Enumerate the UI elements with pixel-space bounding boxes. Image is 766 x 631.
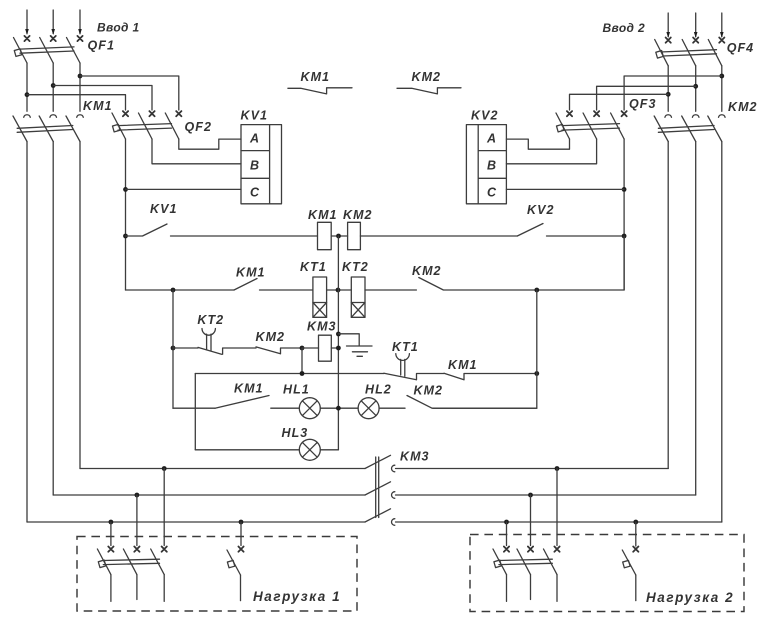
svg-text:QF1: QF1: [88, 38, 115, 52]
contact KM1 NO row5: [215, 396, 299, 409]
wire right rail corner into row 2: [537, 236, 624, 290]
circuit breaker QF4 (3-pole): [655, 40, 722, 66]
node row3 drop junction: [300, 346, 305, 351]
node trunk row3: [336, 346, 341, 351]
wire QF2 pole C rail down: [125, 139, 127, 290]
lamp HL3: [299, 439, 320, 460]
svg-text:Ввод 2: Ввод 2: [603, 21, 645, 35]
svg-text:Нагрузка 2: Нагрузка 2: [646, 590, 734, 605]
svg-text:KT1: KT1: [300, 260, 327, 274]
svg-text:C: C: [487, 185, 497, 199]
svg-text:A: A: [486, 132, 497, 146]
node row4 right junction: [534, 371, 539, 376]
wire HL3 row right: [320, 449, 338, 451]
contactor KM1 main contacts (3-pole): [13, 115, 83, 142]
contactor KM3 changeover (3-pole): [365, 455, 395, 525]
wire HL3 row left: [195, 449, 299, 451]
svg-text:QF2: QF2: [185, 120, 212, 134]
svg-text:KM3: KM3: [400, 449, 430, 463]
svg-text:QF3: QF3: [629, 97, 656, 111]
wire right mid vertical: [433, 290, 537, 408]
wire row2 left from rail: [126, 289, 235, 291]
contact KM1 NC aux (top middle): [288, 88, 352, 94]
input feeder lines Ввод 1 (3 phases with arrows): [25, 10, 82, 35]
contact KM2 NO row2 mirrored: [419, 278, 537, 291]
relay KT1 time relay coil: [313, 277, 327, 317]
wire QF3 pole A step to KV2: [506, 139, 569, 149]
wire QF2 pole A step to KV1: [179, 139, 241, 149]
relay KV2 voltage monitor box: [466, 125, 506, 204]
contact KT2 timed with parachute: [173, 329, 256, 355]
coil KM3 contactor coil: [319, 335, 332, 361]
svg-text:KM1: KM1: [448, 358, 478, 372]
wire taps from QF4 to QF3: [570, 76, 722, 110]
wire left vertical row4-HL3: [194, 374, 196, 450]
svg-text:C: C: [250, 185, 260, 199]
wire between KT coils: [327, 289, 352, 291]
svg-text:Нагрузка 1: Нагрузка 1: [253, 589, 341, 604]
node tap dots under QF1: [78, 74, 83, 79]
wire load1 breaker tails: [111, 575, 164, 602]
svg-text:QF4: QF4: [727, 41, 754, 55]
svg-text:HL2: HL2: [365, 383, 392, 397]
terminal x marks of QF4: [666, 38, 725, 43]
terminal x marks of QF3: [567, 111, 627, 116]
wire QF4 poles down to tap dots: [668, 66, 722, 112]
wire drops into load 1: [111, 469, 241, 546]
svg-text:Ввод 1: Ввод 1: [97, 20, 139, 34]
svg-text:KM1: KM1: [83, 99, 113, 113]
wire C to KV2: [506, 188, 624, 190]
contactor KM2 main contacts (3-pole): [654, 115, 725, 142]
svg-text:B: B: [250, 158, 260, 172]
contact KV1 NO: [126, 224, 318, 236]
node C-wire junction: [123, 187, 128, 192]
wire between coils: [331, 235, 347, 237]
node rail row3 junction: [171, 346, 176, 351]
terminal x marks load2 breaker: [504, 547, 560, 552]
node row4 drop junction: [300, 371, 305, 376]
svg-text:KM2: KM2: [412, 264, 442, 278]
coil KM2 contactor coil: [348, 222, 361, 249]
lamp HL1: [299, 398, 320, 419]
relay KV1 voltage monitor box: [241, 125, 282, 204]
svg-text:KV1: KV1: [241, 108, 268, 122]
svg-text:KM1: KM1: [308, 208, 338, 222]
input feeder lines Ввод 2 (3 phases with arrows): [666, 13, 723, 38]
terminal x marks of QF1: [24, 36, 82, 41]
wire into KM3 coil: [302, 347, 319, 349]
wire C to KV1: [126, 188, 242, 190]
svg-text:KM2: KM2: [256, 330, 286, 344]
wire KM2 phase verticals down to buses: [668, 142, 722, 523]
contact KM2 NC aux (top middle): [397, 88, 461, 94]
svg-text:KM3: KM3: [307, 320, 337, 334]
node coil junction: [336, 234, 341, 239]
wire HL2 to KM2 contact: [379, 407, 405, 409]
terminal x marks of QF2: [123, 111, 181, 116]
svg-text:KT1: KT1: [392, 340, 419, 354]
circuit breaker load2 single pole: [622, 550, 636, 601]
wire coils to KV2 contact: [360, 235, 517, 237]
contact KM1 NO row2: [234, 279, 313, 291]
circuit breaker load1 single pole: [227, 550, 241, 601]
circuit breaker QF1 (3-pole): [14, 38, 81, 64]
node row2 left junction: [171, 288, 176, 293]
svg-text:KM2: KM2: [412, 70, 442, 84]
wire QF2 pole B to KV1: [152, 139, 241, 164]
node C-wire junction right: [622, 187, 627, 192]
circuit breaker load2 (3-pole): [493, 549, 557, 575]
svg-text:KM1: KM1: [301, 70, 331, 84]
svg-text:KT2: KT2: [342, 260, 369, 274]
relay KT2 time relay coil: [351, 277, 365, 317]
contact KM2 NC row3: [256, 347, 302, 354]
svg-text:A: A: [249, 132, 260, 146]
svg-text:KM2: KM2: [728, 100, 758, 114]
svg-text:KM1: KM1: [234, 381, 264, 395]
wire left buses to KM3: [27, 469, 365, 523]
wire vertical row3 to row4: [301, 348, 303, 374]
wire QF3 pole C rail down: [623, 139, 625, 290]
node KT junction: [336, 288, 341, 293]
node row2 right junction: [534, 288, 539, 293]
svg-text:KT2: KT2: [197, 313, 224, 327]
svg-text:HL1: HL1: [283, 382, 310, 396]
wire KT2 coil to KM2 contact: [365, 289, 416, 291]
node bus drop dots left: [162, 466, 167, 471]
contact KM1 NC row4: [444, 373, 537, 380]
wire QF3 pole B to KV2: [506, 139, 596, 164]
contact KM2 NO row5 mirrored: [407, 396, 537, 409]
wire KM3 coil to trunk: [331, 347, 338, 349]
coil KM1 contactor coil: [318, 222, 332, 249]
ground: [338, 334, 372, 357]
node bus drop dots right: [555, 466, 560, 471]
svg-text:KV2: KV2: [471, 108, 498, 122]
terminal x mark load2 single breaker: [633, 547, 638, 552]
svg-text:KM1: KM1: [236, 266, 266, 280]
wire KM1 phase verticals down to buses: [27, 142, 80, 523]
wire drops into load 2: [507, 469, 636, 547]
node tap dots under QF4: [719, 74, 724, 79]
svg-text:KM2: KM2: [343, 208, 373, 222]
node rail-row1 junction right: [622, 234, 627, 239]
circuit breaker QF3 (3-pole control): [556, 113, 624, 139]
terminal x mark load1 single breaker: [238, 547, 243, 552]
svg-text:KV2: KV2: [527, 203, 554, 217]
wire HL1 to HL2: [320, 407, 358, 409]
lamp HL2: [358, 398, 379, 419]
load box Нагрузка 1: [77, 537, 357, 612]
wire right buses from KM3: [396, 469, 722, 523]
load box Нагрузка 2: [470, 535, 744, 612]
node trunk row5: [336, 406, 341, 411]
svg-text:KV1: KV1: [150, 202, 177, 216]
wire row4: [195, 373, 384, 375]
terminal x marks load1 breaker: [108, 547, 167, 552]
circuit breaker QF2 (3-pole control): [112, 113, 179, 139]
circuit breaker load1 (3-pole): [97, 549, 164, 575]
contact KT1 timed with parachute: [384, 354, 444, 380]
wire QF1 poles down to tap dots: [27, 63, 80, 111]
wire mid vertical trunk: [337, 236, 339, 450]
wire load2 breaker tails: [507, 575, 558, 602]
wire rail left mid vertical: [172, 290, 174, 408]
wire row5 left: [173, 407, 215, 409]
svg-text:HL3: HL3: [282, 426, 309, 440]
contact KV2 NO: [517, 224, 624, 237]
svg-text:KM2: KM2: [414, 383, 444, 397]
svg-text:B: B: [487, 158, 497, 172]
node rail-KV1 junction: [123, 234, 128, 239]
wire taps from QF1 to QF2: [27, 76, 179, 110]
node trunk ground tap: [336, 332, 341, 337]
